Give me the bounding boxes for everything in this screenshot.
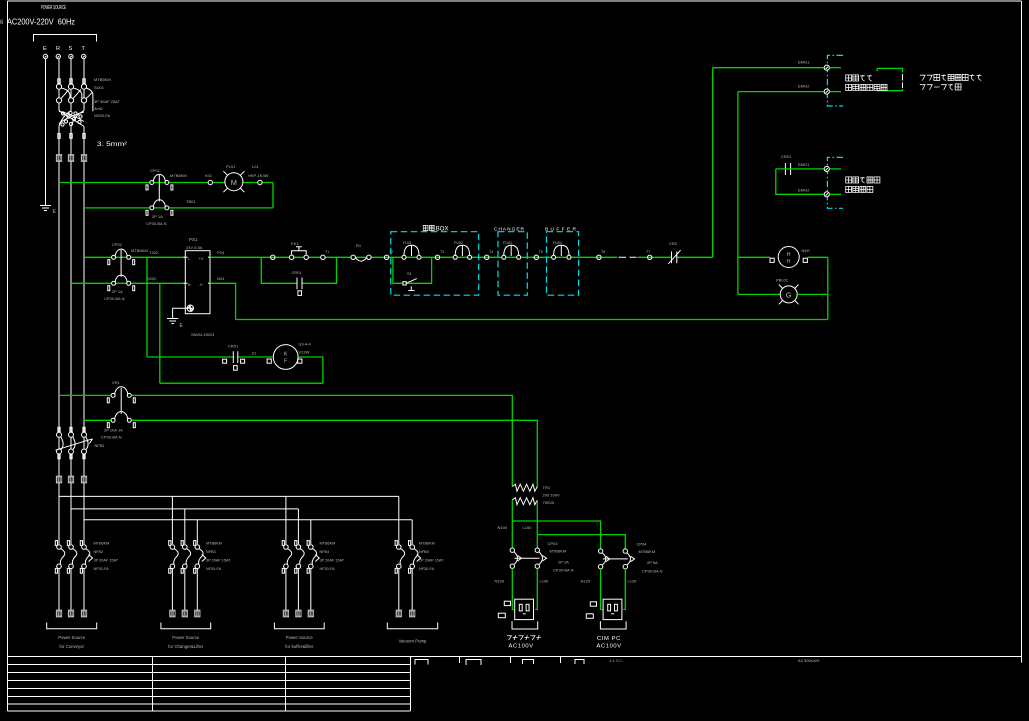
terminal strip line top	[827, 55, 843, 106]
note hijo teishi shirei	[846, 84, 887, 90]
wire VR feed top	[59, 394, 111, 396]
svg-text:TR1: TR1	[543, 485, 551, 490]
svg-text:24V 6.5A: 24V 6.5A	[186, 245, 203, 250]
hour meter HM1	[770, 247, 807, 268]
svg-text:Z1: Z1	[252, 351, 257, 356]
outlet maintenance bracket	[512, 621, 538, 629]
breaker SU01 pole T	[81, 79, 86, 103]
breaker SU01 labels	[94, 77, 120, 118]
transformer TR1 labels	[543, 485, 560, 505]
breaker CP04 pole 1	[598, 549, 609, 569]
svg-text:MTB6KM: MTB6KM	[639, 549, 656, 554]
svg-text:CIM PC: CIM PC	[597, 636, 621, 642]
switch S1	[403, 279, 417, 291]
svg-text:PS1: PS1	[189, 237, 198, 242]
svg-text:PL01: PL01	[226, 164, 236, 169]
breaker NFB4 pole 2	[295, 541, 304, 574]
svg-text:2P 1A: 2P 1A	[558, 560, 569, 565]
svg-text:T4: T4	[489, 250, 493, 254]
svg-text:FU01: FU01	[403, 241, 412, 245]
wire EMG2 stub	[829, 91, 841, 93]
breaker NFB4 pole 1	[282, 541, 291, 574]
wire meter out	[807, 256, 827, 258]
PS1 ground wire	[173, 308, 188, 318]
svg-text:P24: P24	[217, 250, 225, 255]
terminal E	[43, 54, 47, 58]
bus drop G3-T	[310, 520, 312, 544]
PS1 ground symbol	[167, 319, 178, 324]
svg-text:NF30-FA: NF30-FA	[320, 567, 336, 571]
svg-text:AC100V: AC100V	[597, 644, 622, 650]
breaker CP04 gang link	[603, 558, 628, 560]
wire outlet2 left	[601, 569, 603, 610]
breaker CP01 labels	[146, 168, 196, 226]
svg-text:HKP-1K3W: HKP-1K3W	[248, 173, 269, 178]
terminal K01	[205, 173, 213, 185]
breaker CP02 gang link	[120, 250, 122, 277]
terminal tag NFB2-3	[81, 610, 87, 617]
power source bracket	[34, 35, 97, 42]
svg-text:CP02: CP02	[112, 242, 123, 247]
svg-text:3P 30AF 20AT: 3P 30AF 20AT	[94, 99, 120, 104]
breaker VR1 pole 1	[107, 387, 135, 403]
svg-text:CP30-BA N: CP30-BA N	[146, 221, 167, 226]
terminal T	[82, 54, 86, 58]
svg-text:T5: T5	[539, 250, 543, 254]
svg-text:3. 5mm²: 3. 5mm²	[97, 141, 128, 148]
wire P24 rail	[210, 256, 617, 258]
group bracket NFB3	[161, 623, 211, 629]
breaker NFB1 pole T	[82, 427, 89, 459]
terminal tag NFB4-1	[283, 610, 289, 617]
svg-text:NF30-FA: NF30-FA	[419, 567, 435, 571]
wire NFB3 pole 2 down	[184, 569, 186, 610]
breaker CP01 pole 2	[146, 200, 173, 216]
breaker VR1 labels	[101, 380, 123, 440]
breaker NFB2 arrow	[89, 555, 93, 562]
terminal tag NFB3-2	[182, 610, 188, 617]
wire tag S2	[68, 476, 74, 483]
wire outlet2 right	[623, 569, 625, 610]
breaker CP03 labels	[548, 541, 574, 573]
svg-text:NF30-FA: NF30-FA	[94, 567, 110, 571]
border zone tick marks	[460, 657, 1022, 663]
svg-text:L100: L100	[540, 579, 550, 584]
svg-text:FIL1: FIL1	[291, 241, 300, 246]
bus drop G2-T	[196, 520, 198, 544]
group bracket NFB4	[274, 623, 324, 629]
svg-text:2P 1A: 2P 1A	[112, 289, 123, 294]
wire NFB5 pole 1 down	[398, 569, 400, 610]
wire meter feed	[738, 256, 770, 258]
twisted cable symbol	[59, 111, 84, 127]
wire lamp circuit top	[59, 182, 273, 184]
breaker NFB5 pole 2	[409, 541, 418, 574]
terminal T6	[597, 255, 601, 259]
svg-text:CP30-BA N: CP30-BA N	[553, 568, 574, 573]
pilot lamp PL01	[223, 171, 244, 192]
svg-text:Power Source: Power Source	[58, 635, 86, 640]
svg-text:N4H: N4H	[802, 248, 810, 253]
svg-text:NFB2: NFB2	[94, 550, 104, 554]
wire NFB3 pole 1 down	[171, 569, 173, 610]
revision bracket mark 2	[466, 660, 481, 666]
breaker NFB3 arrow	[202, 555, 206, 562]
svg-text:3P 20AF 15AT: 3P 20AF 15AT	[94, 559, 119, 563]
breaker CP02 pole 2	[108, 275, 135, 291]
breaker CP03 pole 1	[510, 548, 521, 568]
wire NFB4 pole 2 down	[297, 569, 299, 610]
breaker CP03 gang link	[515, 557, 540, 559]
wire tag S1	[68, 155, 74, 162]
svg-text:T7: T7	[646, 250, 650, 254]
group label NFB4	[285, 635, 314, 649]
wire tag T1	[81, 155, 87, 162]
breaker VR1 gang link	[120, 388, 122, 414]
svg-text:BOX: BOX	[436, 227, 449, 233]
wire EMG2	[738, 91, 824, 93]
wire P24 rail right	[638, 256, 713, 258]
title block table	[8, 657, 411, 712]
wire fan circuit top	[147, 356, 273, 358]
svg-text:2P 5A: 2P 5A	[647, 560, 658, 565]
fuse FU04	[552, 245, 571, 259]
outlet CIM PC bracket	[600, 621, 626, 629]
contact CR2	[668, 250, 680, 264]
svg-text:Power Source: Power Source	[286, 635, 314, 640]
svg-text:L120: L120	[628, 579, 638, 584]
wire NFB2 pole 2 down	[70, 569, 72, 610]
wire EMG out stub 2	[829, 193, 841, 195]
breaker CP02 pole 1	[108, 249, 135, 265]
label SEIGYO BOX	[423, 225, 434, 230]
breaker CP03 pole 2	[535, 548, 546, 568]
svg-text:CP03: CP03	[548, 541, 559, 546]
terminal tag NFB2-2	[68, 610, 74, 617]
svg-text:2P 1A: 2P 1A	[152, 214, 163, 219]
svg-text:CR01: CR01	[292, 270, 303, 275]
svg-text:L100: L100	[523, 525, 533, 530]
wire S1 bypass	[393, 257, 432, 283]
note demo machine line 1	[920, 74, 982, 80]
terminal T3	[435, 255, 439, 259]
wire VR feed bottom	[84, 419, 111, 421]
svg-text:BUFFER: BUFFER	[545, 227, 577, 233]
svg-text:NFB1: NFB1	[95, 443, 106, 448]
bus drop G2-R	[171, 496, 173, 544]
breaker NFB3 pole 3	[194, 541, 203, 574]
PS1 labels	[186, 237, 215, 337]
svg-text:U3-4-4: U3-4-4	[299, 342, 312, 347]
wire EMG out stub 1	[829, 168, 841, 170]
terminal tag NFB3-3	[195, 610, 201, 617]
contact CR01 fan	[223, 351, 245, 370]
terminal T7	[648, 255, 652, 259]
dashed box BUFFER	[547, 232, 579, 296]
breaker SU01 pole R	[56, 79, 61, 103]
terminal T4	[485, 255, 489, 259]
svg-text:R: R	[56, 46, 60, 52]
svg-text:750VA: 750VA	[543, 500, 555, 505]
breaker NFB2 labels	[94, 542, 119, 572]
note souchi e output	[846, 177, 880, 183]
breaker NFB5 labels	[419, 542, 444, 572]
breaker CP04 pole 2	[623, 549, 634, 569]
svg-text:TB01: TB01	[186, 199, 196, 204]
bus R	[59, 495, 399, 497]
wire tag R2	[56, 476, 62, 483]
svg-text:M: M	[231, 178, 237, 187]
lamp PBL01	[779, 285, 799, 305]
svg-text:EMG2: EMG2	[798, 188, 810, 193]
wire fan return	[160, 382, 323, 384]
wire break dashes	[619, 256, 637, 258]
svg-text:NFB4: NFB4	[320, 550, 330, 554]
breaker NFB1 pole R	[57, 427, 64, 459]
bus S	[71, 508, 298, 510]
svg-text:S1: S1	[407, 271, 413, 276]
note demo machine line 2	[920, 84, 961, 90]
terminal T2	[384, 255, 388, 259]
jumper dashed section	[902, 74, 904, 88]
terminal R	[56, 54, 60, 58]
wire NFB4 pole 3 down	[310, 569, 312, 610]
breaker CP01 gang link	[158, 175, 160, 202]
power supply PS1 box	[184, 251, 212, 314]
coil R1	[351, 255, 371, 261]
wire E down	[45, 59, 47, 206]
wire outlet1 left	[512, 568, 514, 609]
svg-text:R1: R1	[356, 243, 362, 248]
svg-text:G: G	[786, 291, 792, 300]
svg-text:EMG1: EMG1	[798, 162, 810, 167]
svg-text:V13W: V13W	[299, 350, 310, 355]
breaker CP02 labels	[104, 242, 159, 301]
svg-text:E: E	[43, 46, 47, 52]
svg-text:CR2: CR2	[669, 241, 678, 246]
wire branch fan N	[159, 283, 161, 383]
wire NFB3 pole 3 down	[196, 569, 198, 610]
fuse FU01	[402, 245, 421, 259]
wire tag T2	[81, 476, 87, 483]
svg-text:MTB6KM: MTB6KM	[94, 542, 110, 546]
wire NFB4 pole 1 down	[285, 569, 287, 610]
svg-text:T6: T6	[601, 250, 605, 254]
outlet maintenance	[515, 599, 534, 619]
contact CR01	[297, 278, 302, 296]
svg-text:CP01: CP01	[150, 168, 161, 173]
svg-text:3P 20AF 15AT: 3P 20AF 15AT	[206, 559, 231, 563]
svg-text:-V: -V	[199, 282, 203, 287]
terminal L01	[258, 180, 262, 184]
terminal tag NFB5-1	[396, 610, 402, 617]
breaker SU01 linkage curves	[61, 88, 93, 111]
wire NFB5 pole 2 down	[411, 569, 413, 610]
svg-text:N100: N100	[498, 525, 508, 530]
wire TR1 secondary right down	[536, 500, 538, 548]
svg-text:NFB5: NFB5	[419, 550, 429, 554]
svg-text:MTB6KM: MTB6KM	[206, 542, 222, 546]
bus drop G3-S	[297, 509, 299, 544]
fan labels	[299, 342, 312, 355]
wire to TR1 primary left	[132, 395, 513, 486]
svg-text:K: K	[284, 352, 288, 358]
svg-text:3mΩ: 3mΩ	[94, 106, 103, 111]
fuse FU02	[453, 245, 471, 259]
label maintenance	[507, 635, 541, 640]
wire EMG1 stub	[829, 67, 841, 69]
svg-text:T202: T202	[149, 250, 159, 255]
svg-text:MTB6KM: MTB6KM	[94, 77, 111, 82]
wire T vertical	[83, 59, 85, 544]
breaker NFB2 pole 3	[80, 541, 89, 574]
wire NFB2 pole 1 down	[58, 569, 60, 610]
ground E	[40, 206, 51, 211]
terminal EMG out 1	[824, 166, 829, 171]
svg-text:H: H	[787, 252, 791, 258]
wire to TR1 primary right	[132, 420, 538, 486]
group bracket NFB5	[387, 623, 437, 629]
wire lamp circuit bottom	[84, 207, 273, 209]
wire branch N to PC	[512, 521, 600, 549]
svg-text:MTB6KM: MTB6KM	[550, 549, 567, 554]
wire branch L to PC	[537, 535, 625, 549]
group label NFB2	[58, 635, 86, 649]
revision bracket mark 4	[575, 660, 584, 665]
svg-text:Power Source: Power Source	[172, 635, 200, 640]
breaker NFB4 labels	[320, 542, 345, 572]
bus T	[84, 519, 412, 521]
svg-text:EMG1: EMG1	[798, 60, 810, 65]
wire EMG2 riser	[737, 92, 739, 295]
svg-text:NF30-FA: NF30-FA	[206, 567, 222, 571]
svg-text:A3 300x420: A3 300x420	[798, 658, 820, 663]
svg-text:EMG2: EMG2	[798, 84, 810, 89]
svg-text:for Conveyor: for Conveyor	[59, 644, 84, 649]
svg-text:NFB3: NFB3	[206, 550, 216, 554]
svg-text:S: S	[69, 46, 73, 52]
wire N24 out	[210, 283, 236, 319]
svg-text:MTB6KM: MTB6KM	[170, 173, 187, 178]
terminal EMG1	[824, 65, 829, 70]
wire tag R1	[56, 155, 62, 162]
svg-text:SU01: SU01	[94, 85, 105, 90]
terminal L01 labels	[248, 164, 269, 178]
wire N24 rail	[236, 319, 828, 321]
terminal EMG2	[824, 89, 829, 94]
bus drop G4-T	[411, 520, 413, 544]
breaker CP04 labels	[637, 542, 663, 574]
svg-text:MTB6KM: MTB6KM	[131, 248, 148, 253]
svg-text:CP30-BA N: CP30-BA N	[642, 569, 663, 574]
outlet CIM PC	[603, 599, 622, 619]
svg-text:CR01: CR01	[228, 344, 239, 349]
note souchi yori	[846, 75, 872, 81]
wire meter drop	[827, 257, 829, 319]
note hijo teishi	[846, 186, 873, 192]
svg-text:H: H	[787, 259, 791, 265]
wire clip R	[58, 134, 60, 139]
wire clip S	[70, 134, 72, 139]
terminal T1	[321, 255, 325, 259]
terminal a1	[271, 255, 275, 259]
svg-text:FU02: FU02	[454, 241, 463, 245]
svg-text:POWER SOURCE: POWER SOURCE	[41, 5, 66, 11]
group bracket NFB2	[47, 623, 97, 629]
wire lamp G feed	[738, 293, 780, 295]
revision bracket mark 3	[523, 660, 534, 665]
outlet maintenance ground lugs	[498, 601, 510, 618]
svg-text:N: N	[188, 282, 191, 287]
svg-text:Vacuum Pump: Vacuum Pump	[399, 639, 427, 644]
svg-text:S202: S202	[147, 276, 157, 281]
wire control feed bottom	[71, 282, 185, 284]
svg-text:FU04: FU04	[553, 241, 562, 245]
wire lamp circuit right	[272, 183, 274, 208]
breaker SU01 pole S	[68, 79, 73, 103]
fan motor FAN1	[267, 345, 302, 370]
terminal tag NFB4-2	[296, 610, 302, 617]
svg-text:MTB6KM: MTB6KM	[419, 542, 435, 546]
breaker NFB5 pole 1	[395, 541, 404, 574]
wire branch fan P	[146, 257, 148, 357]
svg-text:VR1: VR1	[112, 380, 121, 385]
wire CR01 bypass branch	[261, 257, 336, 283]
breaker NFB2 pole 2	[67, 541, 76, 574]
fuse FU03	[502, 245, 521, 259]
terminal tag NFB2-1	[56, 610, 62, 617]
breaker NFB4 pole 3	[307, 541, 316, 574]
svg-text:AC200V-220V 60Hz: AC200V-220V 60Hz	[7, 17, 75, 27]
pushbutton FIL1	[289, 247, 308, 260]
wire EMG1	[713, 67, 825, 69]
svg-text:for Changer&Lifter: for Changer&Lifter	[168, 644, 204, 649]
dashed box CHANGER	[498, 232, 527, 296]
breaker NFB3 pole 1	[169, 541, 178, 574]
bus drop G3-R	[285, 496, 287, 544]
svg-text:+V: +V	[199, 256, 204, 261]
PS1 pin labels	[188, 256, 204, 287]
wire EMG out top	[776, 168, 824, 170]
svg-text:1:1 SCL: 1:1 SCL	[609, 658, 624, 663]
svg-text:T1: T1	[325, 250, 329, 254]
transformer TR1 secondary	[512, 498, 537, 505]
svg-text:K01: K01	[205, 173, 213, 178]
breaker NFB1 pole S	[69, 427, 76, 459]
wire clip T	[83, 134, 85, 139]
svg-text:for buffer&lifter: for buffer&lifter	[285, 644, 314, 649]
svg-text:N120: N120	[581, 579, 591, 584]
contact CR01 output	[785, 163, 790, 175]
breaker NFB3 labels	[206, 542, 231, 572]
svg-text:CP30-BA N: CP30-BA N	[101, 435, 122, 440]
svg-text:AC100V: AC100V	[509, 644, 534, 650]
breaker NFB5 arrow	[417, 555, 421, 562]
PS1 ground pin	[187, 305, 193, 311]
terminal S	[69, 54, 73, 58]
wire lamp G out	[797, 293, 828, 295]
wire TR1 secondary left down	[511, 500, 513, 548]
wire fan out	[299, 357, 323, 383]
terminal tag NFB5-2	[409, 610, 415, 617]
wire riser to EMG	[712, 68, 714, 258]
wire control feed top	[84, 256, 185, 258]
wire R vertical	[58, 59, 60, 544]
bus drop G2-S	[184, 509, 186, 544]
wire EMG out loop	[776, 169, 824, 194]
terminal tag NFB4-3	[308, 610, 314, 617]
breaker NFB4 arrow	[315, 555, 319, 562]
